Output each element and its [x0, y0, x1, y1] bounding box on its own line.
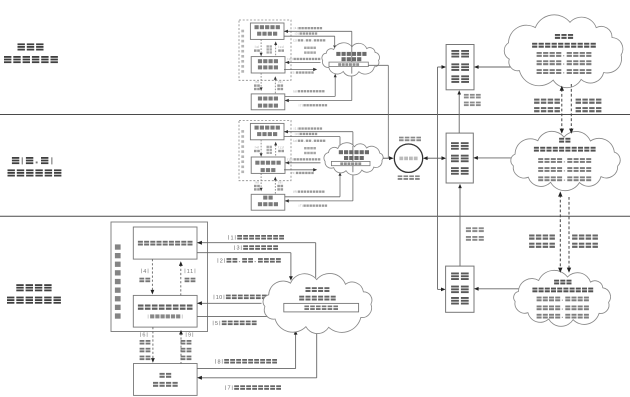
text: 办件数据、投资项目 [537, 69, 592, 74]
text: 省级 [451, 142, 469, 150]
text: （9） [278, 80, 282, 84]
text: 理平台 [261, 168, 276, 172]
dashed double arrow: info sharing / business collaboration (provincial-city) [559, 195, 561, 270]
national band line (1) get application info [284, 30, 352, 32]
text: 信息共享 [304, 147, 316, 149]
wire: national exchange box to directory engine junction [368, 64, 388, 66]
text: 受理 [254, 84, 260, 86]
provincial band vertical from line(1) into exchange box [352, 146, 354, 162]
text: （6） [140, 332, 147, 338]
svg-text:2: 2 [220, 258, 223, 264]
text: 目录引擎 [399, 157, 417, 161]
national band dashed arrow (4) apply [260, 39, 262, 52]
dashed arrow: statistics analysis / supervision (down to city cloud) [568, 197, 570, 270]
text: 信息共享 [534, 99, 560, 104]
dashed arrow (9) notify feedback info [180, 333, 182, 363]
provincial band line (1) get application info [284, 131, 353, 133]
dashed arrow (4) apply [151, 259, 153, 290]
text: 获取信息 [398, 175, 420, 180]
national band integrated-platform dashed box [239, 20, 291, 80]
line (8) feedback process and result info [197, 368, 296, 370]
text: （7）部门获取受理信息 [299, 103, 327, 107]
text: 反馈 [278, 49, 284, 51]
text: 政务服务平台 [4, 56, 58, 63]
text: （5）受理信息推送 [213, 321, 257, 327]
text: 办理系统 [153, 382, 178, 387]
separator between national and provincial bands [0, 114, 630, 116]
national band management platform box [251, 57, 285, 73]
text: 告知 [254, 188, 260, 190]
text: 政务服务数据共享平台 [532, 43, 596, 48]
text: 反馈 [181, 348, 192, 353]
national band line (8) feedback process and result info [285, 95, 335, 97]
text: 同步 [267, 152, 272, 154]
text: 办理系统 [258, 104, 278, 108]
text: （10）获取过程和结果信息 [287, 57, 320, 61]
text: 业务协同 [534, 107, 560, 112]
text: 资源 [451, 155, 469, 163]
arrow: provincial sharing cloud to provincial resource catalog [477, 157, 518, 159]
city band internet portal box [133, 227, 197, 259]
text: （8）反馈过程和结果信息 [293, 89, 324, 93]
text: 申请 [139, 278, 150, 282]
text: 受理 [254, 185, 260, 187]
text: 事项清单、电子证照 [537, 60, 592, 65]
text: 国家级 [555, 34, 573, 39]
provincial band data exchange platform box [331, 161, 370, 165]
text: 数据共享平台 [299, 296, 336, 301]
text: 录注册 [464, 102, 481, 107]
text: 基础数据、用户数据 [537, 297, 589, 302]
text: 省（区、市） [12, 157, 53, 164]
national band business system box [251, 94, 285, 110]
provincial band business system box [251, 194, 285, 210]
text: （6） [255, 181, 259, 185]
vertical text: 一体化政务服务平台 [241, 30, 244, 73]
text: 告知 [254, 88, 260, 90]
text: 反馈 [278, 150, 284, 152]
text: 数据交换平台 [304, 306, 338, 311]
text: 状态 [267, 48, 272, 50]
text: （1）获取申请所需信息 [228, 235, 284, 241]
text: 基础数据、用户数据 [537, 52, 592, 57]
national band data exchange platform box [329, 62, 368, 67]
text: 申请 [254, 49, 260, 51]
text: 反馈 [277, 185, 283, 187]
text: （1）获取申请所需信息 [294, 26, 322, 30]
text: 基础数据、用户数据 [538, 158, 591, 163]
text: 政务服务管理平台 [138, 305, 193, 310]
text: （4） [255, 145, 259, 149]
arrow: city->provincial resource catalog registration [459, 188, 461, 267]
text: 政务服务 [306, 287, 330, 292]
arrow: city sharing cloud to city resource catalog [478, 288, 524, 290]
provincial band line (7) department get acceptance info [352, 172, 354, 201]
svg-text:4: 4 [143, 269, 146, 275]
text: 告知 [181, 340, 192, 345]
provincial band line (8) feedback process and result info [285, 196, 340, 198]
text: （4） [141, 269, 148, 275]
national band line (7) department get acceptance info [351, 74, 353, 101]
provincial band internet portal box [250, 123, 284, 139]
text: 政务服务平台 [7, 297, 61, 304]
city band management platform box [133, 295, 197, 327]
arrow: national sharing cloud to national resource catalog [478, 66, 516, 68]
dashed double arrow: info sharing / business collaboration (national-provincial) [561, 89, 563, 131]
text: 告知 [140, 356, 151, 361]
text: 互联网政务服务门户 [138, 241, 193, 246]
text: 录注册 [466, 236, 484, 241]
dashed arrow (6) acceptance info notify [152, 327, 154, 358]
svg-text:0: 0 [219, 295, 222, 301]
text: 资源 [451, 286, 469, 294]
national band line (3) get complete info [284, 35, 335, 37]
text: 申请 [254, 150, 260, 152]
svg-text:3: 3 [236, 246, 239, 252]
text: 信息 [267, 45, 272, 47]
text: （3）获取完整信息 [295, 32, 317, 36]
text: （4） [255, 45, 259, 49]
provincial band data sharing platform cloud [324, 143, 383, 175]
text: （11） [278, 145, 284, 149]
national band internet portal box [250, 23, 284, 39]
text: 业务协同 [304, 152, 316, 154]
text: （2）验证、比对、补充信息 [293, 38, 325, 42]
text: （2）验证、比对、补充信息 [218, 258, 281, 264]
text: （3）获取完整信息 [295, 132, 317, 136]
arrow: into national resource catalog [438, 66, 442, 68]
text: 地市级 [554, 280, 571, 285]
text: 数据交换平台 [338, 63, 359, 66]
text: 信息共享 [304, 47, 316, 49]
text: 服务门户 [257, 32, 277, 36]
provincial band dashed arrow (11) feedback [275, 145, 277, 157]
text: 国家级 [18, 43, 44, 50]
svg-text:7: 7 [227, 386, 230, 392]
text: 服务门户 [257, 132, 277, 136]
dashed arrow: statistics analysis / supervision (down to provincial cloud) [570, 84, 572, 131]
arrow: provincial cloud to engine [383, 157, 390, 159]
provincial band line (3) get complete info [284, 136, 340, 138]
text: 共享平台 [342, 57, 362, 61]
line (10) get process and result info [197, 302, 261, 304]
text: （11） [185, 269, 196, 275]
svg-text:1: 1 [230, 235, 233, 241]
national band data sharing platform cloud [322, 43, 380, 76]
text: 信息 [267, 146, 272, 148]
city band data sharing platform cloud [263, 273, 372, 333]
line (5) acceptance info push [197, 315, 274, 317]
text: 同步 [267, 51, 272, 53]
text: 资源 [451, 63, 469, 71]
dashed arrow (11) feedback [180, 265, 182, 296]
text: 目录 [451, 167, 469, 175]
text: （8）反馈过程和结果信息 [215, 359, 277, 365]
text: 市级 [451, 273, 469, 281]
text: 政务服务平台 [8, 169, 62, 176]
city data sharing cloud [514, 270, 611, 326]
text: 办理系统 [258, 202, 278, 206]
text: 信息 [277, 188, 283, 190]
text: 数据交换平台 [340, 162, 361, 165]
svg-text:1: 1 [190, 269, 193, 275]
provincial band dashed arrow (4) apply [260, 140, 262, 153]
wire: vertical distribution line x=437.5 [437, 67, 439, 289]
text: 受理 [140, 340, 151, 345]
text: （7）部门获取受理信息 [225, 385, 281, 391]
arrow: provincial->national resource catalog registration [458, 94, 460, 133]
national data sharing cloud [504, 15, 623, 88]
text: 信息共享 [529, 235, 555, 240]
national resource catalog box [446, 45, 474, 90]
text: （7）部门获取受理信息 [299, 204, 327, 208]
arrow: into city resource catalog [438, 288, 442, 290]
text: 各地市级 [16, 284, 51, 291]
national band line (5) acceptance info push [284, 68, 314, 70]
text: （1）获取申请所需信息 [294, 127, 322, 131]
text: （2）验证、比对、补充信息 [293, 139, 325, 143]
provincial band dashed arrow (9) notify feedback [274, 180, 276, 194]
text: （11） [278, 45, 284, 49]
text: 办件数据、投资项目 [537, 314, 589, 319]
text: 业务协同 [304, 51, 316, 53]
text: 业务 [263, 196, 273, 200]
national band dashed arrow (6) acceptance notify [260, 73, 262, 87]
text: 监督考核 [576, 107, 602, 112]
text: 统计分析 [572, 235, 598, 240]
vertical text: 一体化政务服务平台 [241, 130, 244, 173]
text: 信息 [277, 88, 283, 90]
text: 目录 [451, 75, 469, 83]
text: 统计分析 [576, 99, 602, 104]
national band vertical from line(1) into exchange box [351, 46, 353, 63]
text: （9） [278, 181, 282, 185]
text: （3）获取完整信息 [234, 245, 278, 251]
text: 政务服务 [258, 59, 278, 63]
provincial band dashed arrow (6) acceptance notify [260, 173, 262, 187]
text: 政务服务数据共享平台 [534, 147, 596, 152]
text: 目录 [451, 297, 469, 305]
text: 业务 [160, 373, 172, 378]
text: 推送信息 [399, 137, 421, 142]
city band business system box [134, 364, 198, 396]
text: 办件数据、投资项目 [538, 176, 591, 181]
vertical text: 一体化政务服务平台 [115, 244, 121, 318]
text: 互联网政务 [255, 25, 280, 29]
text: 信息 [181, 356, 192, 361]
directory engine circle [394, 144, 422, 172]
line (7) department get acceptance info [316, 330, 318, 378]
text: 部门业务 [258, 97, 278, 101]
svg-text:6: 6 [142, 333, 145, 339]
city band data exchange platform box [284, 303, 359, 312]
text: （6） [255, 80, 259, 84]
text: （10）获取过程和结果信息 [214, 295, 279, 301]
provincial band management platform box [251, 157, 285, 173]
text: 省级 [559, 138, 570, 143]
city band integrated-platform outer box [111, 222, 208, 332]
double arrow: engine and provincial resource catalog [426, 157, 443, 159]
provincial band line (5) acceptance info push [284, 169, 314, 171]
text: 反馈 [277, 84, 283, 86]
text: 事项清单、电子证照 [538, 167, 591, 172]
city resource catalog box [446, 266, 474, 312]
provincial band integrated-platform dashed box [239, 120, 291, 180]
svg-text:8: 8 [217, 359, 220, 365]
text: 互联网政务 [255, 126, 280, 130]
provincial resource catalog box [446, 133, 473, 183]
text: 共享平台 [344, 156, 364, 160]
text: （综合管理平台） [148, 314, 183, 318]
text: 信息 [140, 348, 151, 353]
national band dashed arrow (9) notify feedback [274, 80, 276, 94]
national band dashed arrow (11) feedback [275, 45, 277, 57]
text: 监督考核 [572, 243, 598, 248]
text: 管理平台 [258, 65, 278, 69]
text: 事项清单、电子证照 [537, 306, 589, 311]
text: （5）受理信息推送 [291, 171, 313, 175]
text: 政务服务管 [255, 161, 280, 165]
text: 资源目 [464, 94, 481, 99]
text: 政务服务数据共享平台 [532, 288, 593, 293]
text: 业务协同 [529, 243, 555, 248]
text: （9） [186, 332, 193, 338]
provincial data sharing cloud [511, 131, 620, 190]
national band line (10) get process and result info [285, 61, 320, 63]
provincial band line (10) get process and result info [285, 162, 320, 164]
text: （10）获取过程和结果信息 [287, 157, 320, 161]
text: （8）反馈过程和结果信息 [293, 190, 324, 194]
text: 国家 [451, 50, 469, 58]
text: 状态 [267, 149, 272, 151]
line (3) get complete info [197, 252, 291, 254]
separator between provincial and city bands [0, 215, 630, 217]
text: （5）受理信息推送 [291, 71, 313, 75]
text: 政务服务数据 [336, 52, 366, 56]
line (1) get application info [197, 242, 316, 244]
svg-text:5: 5 [215, 321, 218, 327]
text: 政务服务数据 [339, 150, 369, 154]
text: 反馈 [185, 278, 196, 282]
text: 资源目 [466, 227, 484, 232]
svg-text:9: 9 [188, 333, 191, 339]
